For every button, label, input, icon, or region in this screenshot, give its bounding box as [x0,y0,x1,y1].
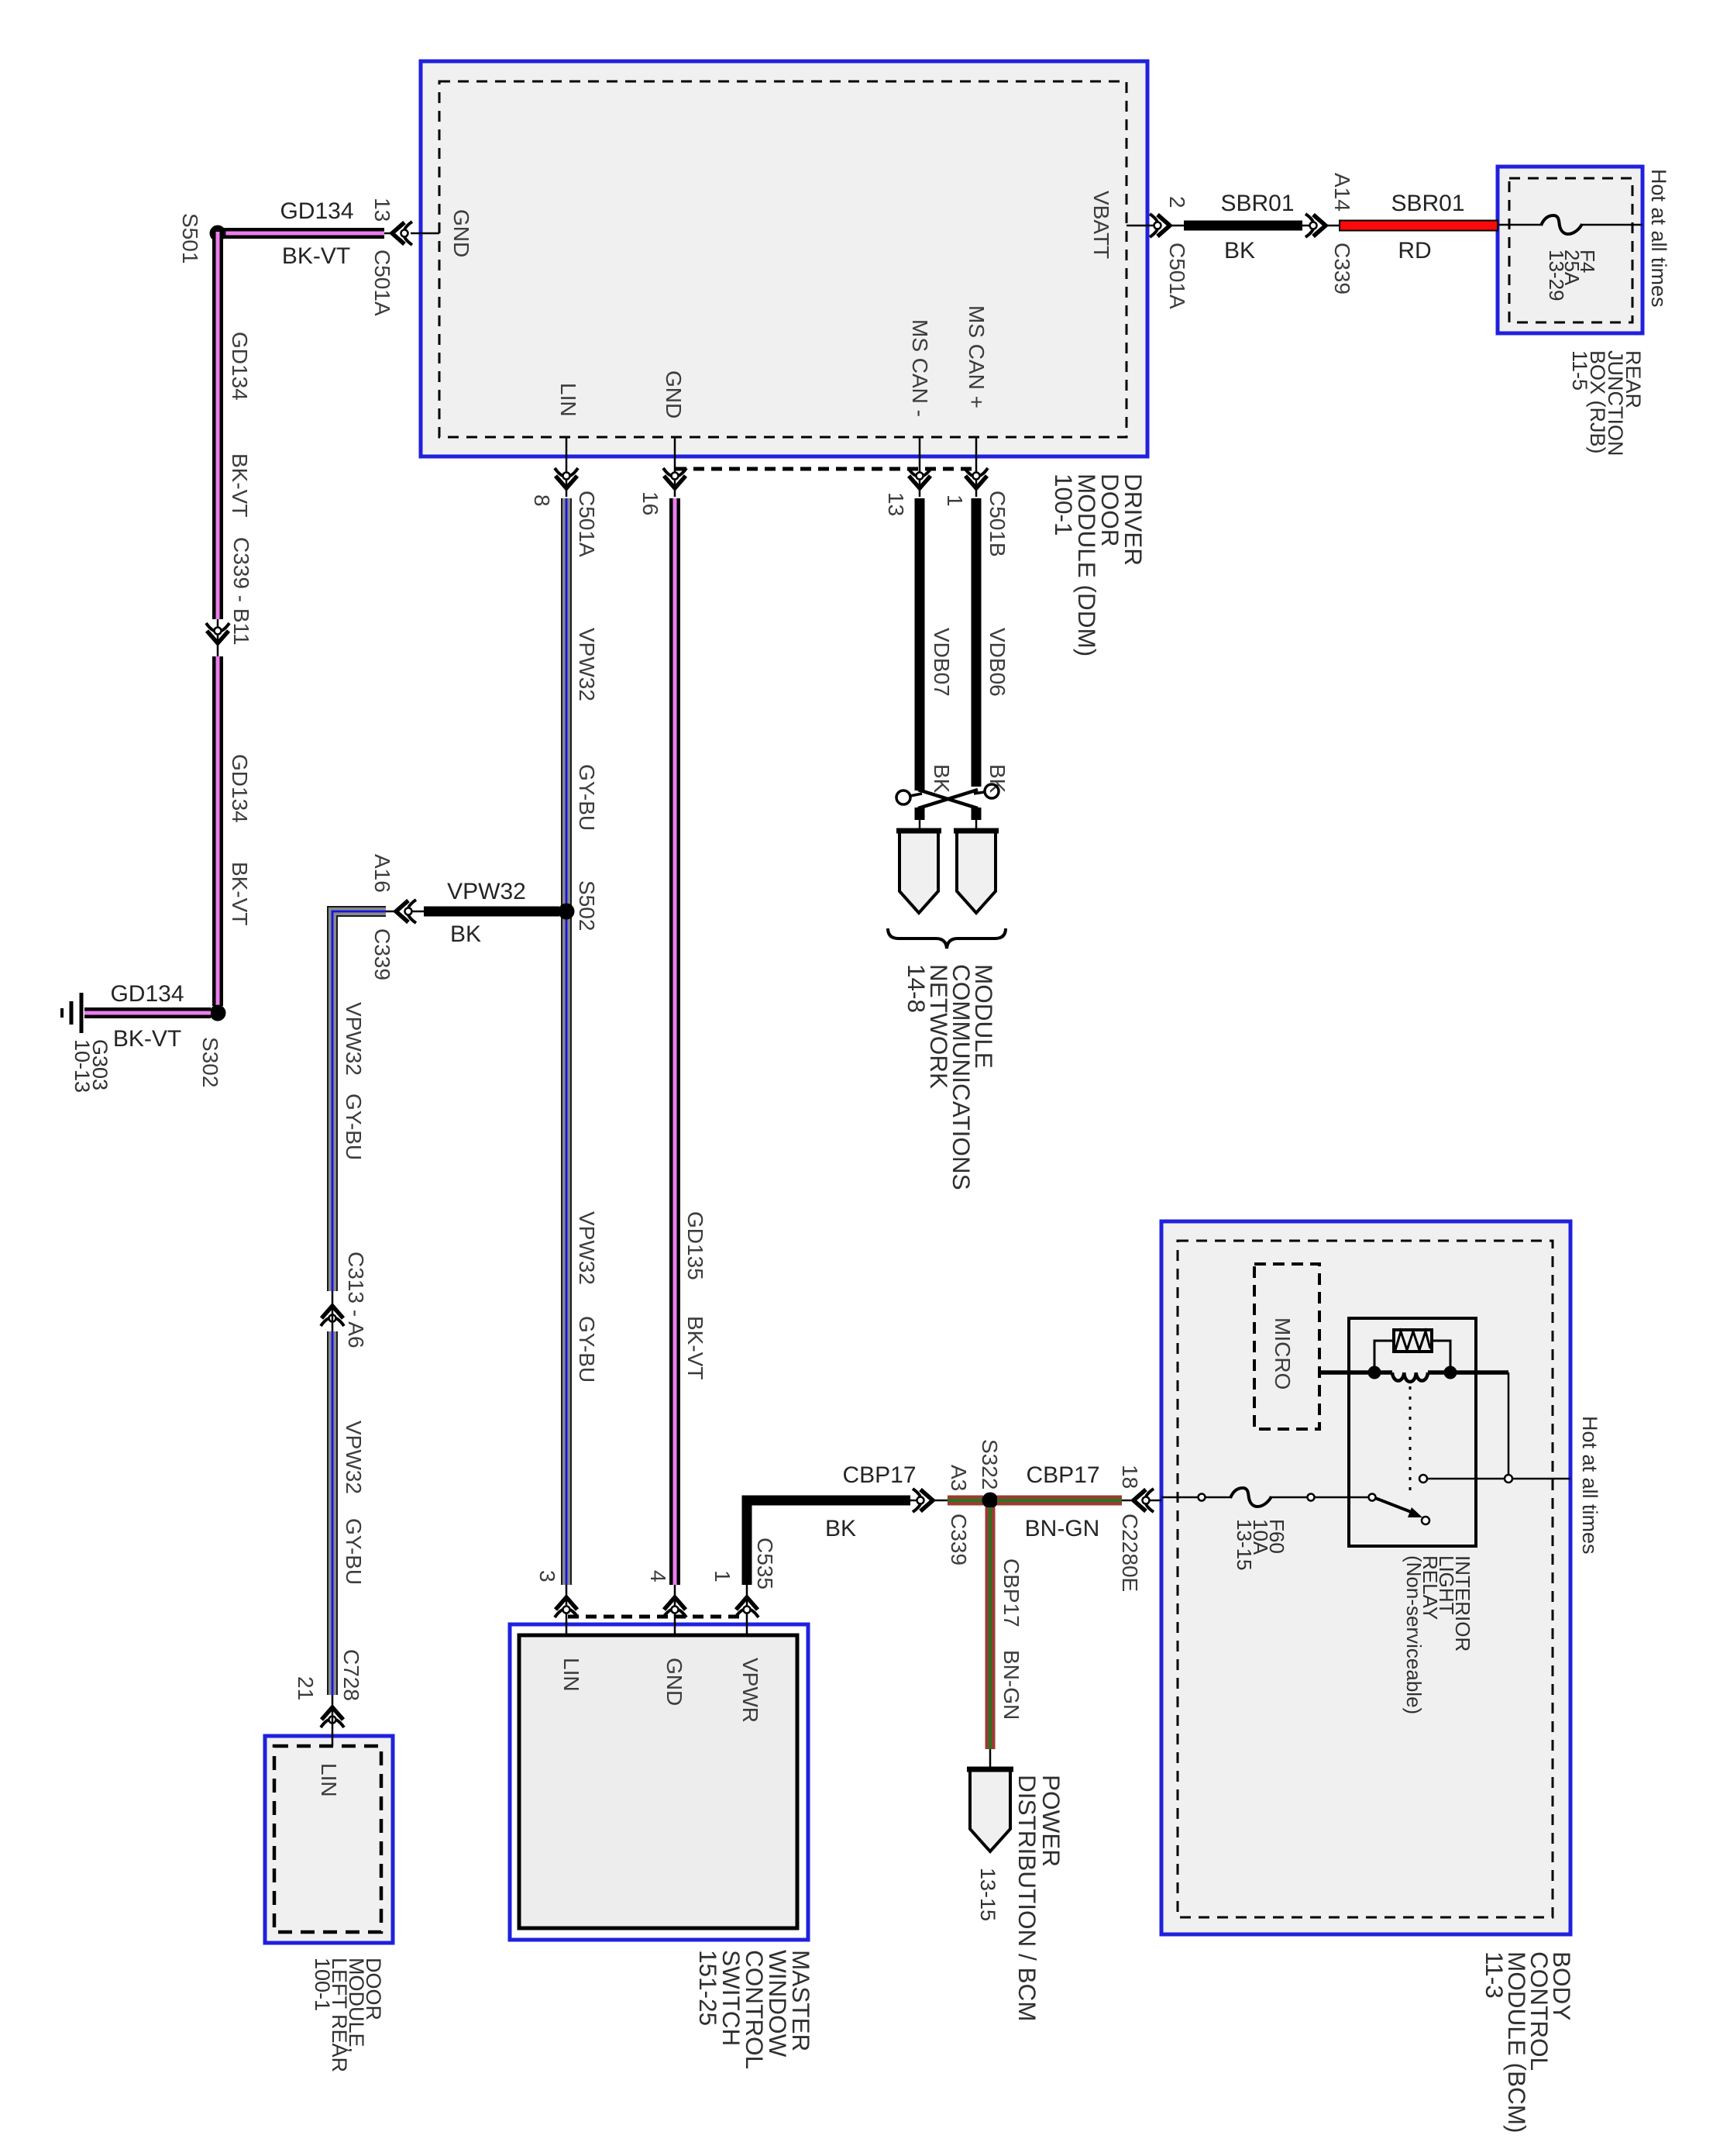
svg-text:S502: S502 [575,880,599,931]
svg-text:RD: RD [1398,238,1431,263]
svg-text:GD134: GD134 [280,198,353,224]
svg-text:BK: BK [930,764,954,794]
wire CBP17 BN-GN stub A3 to S322 [932,1496,983,1506]
module Door Module Left Rear box [265,1736,393,1943]
connector C501B dashed boundary under DDM [676,467,978,471]
switch pin3 stub [566,1585,568,1635]
svg-text:LIN: LIN [556,383,580,417]
off-page arrow (MS CAN -) [899,831,938,913]
connector C535 arrow (pin 4) [663,1597,686,1617]
resistor (relay suppression) [1374,1330,1450,1372]
wire relay NO feed vertical [1508,1372,1510,1475]
relay switch arm [1369,1494,1430,1525]
svg-text:C501A: C501A [370,250,394,316]
svg-text:LIN: LIN [559,1658,583,1692]
svg-text:GY-BU: GY-BU [342,1093,366,1160]
node S502 [559,904,575,920]
node S501 [210,226,226,242]
svg-text:A3: A3 [947,1465,971,1491]
wire GND pin stub (DDM left) [411,232,439,235]
svg-text:CBP17: CBP17 [999,1558,1023,1627]
svg-text:C2280E: C2280E [1118,1514,1142,1592]
wire CBP17 BN-GN S322 down [985,1507,996,1769]
connector C501A arrow (GND) [392,222,412,245]
svg-text:MS CAN -: MS CAN - [908,319,932,417]
svg-text:VPW32: VPW32 [575,628,599,701]
svg-text:C501B: C501B [985,491,1010,557]
wire SBR01 RD [1325,221,1498,231]
svg-text:CBP17: CBP17 [1026,1462,1099,1488]
svg-text:C728: C728 [339,1649,363,1701]
module BCM (Body Control Module) box [1161,1221,1570,1934]
svg-text:2: 2 [1165,196,1189,208]
connector C535 dashed boundary [568,1615,747,1619]
relay coil [1392,1372,1428,1382]
wire VBATT pin stub (DDM right) [1127,225,1160,227]
module Master Window Control Switch box [510,1624,808,1940]
node S302 [210,1005,226,1021]
svg-text:BK: BK [450,921,481,947]
svg-text:GY-BU: GY-BU [575,764,599,831]
svg-text:C501A: C501A [575,491,599,557]
wire GD134 BK-VT horizontal [222,228,393,239]
svg-text:C339: C339 [947,1514,971,1565]
twisted pair symbol [896,784,999,808]
pin 8 stub [566,437,568,497]
connector C501A arrow (VBATT) [1150,214,1170,237]
svg-text:3: 3 [535,1570,559,1583]
wire VPW32 GY-BU corner to door module [332,911,386,1291]
connector C535 arrow (pin 3) [555,1597,578,1617]
switch pin1 stub [746,1585,748,1635]
node S322 [982,1493,999,1509]
wire GD135 BK-VT pin16 to switch pin4 [669,498,680,1585]
wire GD134 BK-VT to ground [84,1007,211,1018]
svg-text:GD134: GD134 [228,754,252,823]
wire GD134 BK-VT vertical upper [212,228,223,656]
svg-text:A16: A16 [370,854,394,893]
svg-text:GD135: GD135 [683,1211,707,1280]
pin 1 stub [975,437,978,497]
connector C339 arrow (A14) [1305,214,1326,237]
svg-text:S302: S302 [198,1037,222,1087]
svg-text:C501A: C501A [1165,243,1189,309]
wire NO contact to hot feed [1427,1478,1505,1480]
svg-text:G30310-13: G30310-13 [71,1039,112,1093]
svg-text:C339: C339 [1330,243,1354,294]
micro U-MICRO dashed box inside BCM [1254,1264,1319,1429]
off-page arrow POWER DISTRIBUTION / BCM [970,1769,1010,1851]
svg-text:8: 8 [530,494,554,507]
module DDM (Driver Door Module) box [421,61,1147,456]
svg-text:Hot at all times: Hot at all times [1578,1416,1601,1555]
wire VPW32 BK from S502 to A16 [424,907,559,917]
wire VPW32 GY-BU lower segment [327,1331,338,1695]
svg-text:BN-GN: BN-GN [999,1650,1023,1720]
relay NO contact [1419,1475,1427,1483]
node hot junction [1505,1475,1512,1483]
svg-text:16: 16 [638,491,662,515]
switch pin4 stub [674,1585,676,1635]
connector C501B arrow (pin 1) [965,468,988,488]
svg-text:C339: C339 [370,928,394,980]
svg-text:18: 18 [1118,1465,1142,1489]
wire BCM fuse branch [1161,1496,1198,1499]
connector arrow (pin 16) [663,468,686,488]
brace [888,928,1006,949]
node coil-right [1444,1366,1457,1379]
module RJB (Rear Junction Box) [1498,167,1642,333]
wire VPW32 GY-BU pin8 to S502 to switch pin3 [561,498,572,1585]
svg-text:S501: S501 [178,213,202,263]
svg-text:Hot at all times: Hot at all times [1647,169,1670,308]
connector C339-B11 arrow [206,623,229,643]
svg-text:GD134: GD134 [110,981,184,1007]
connector arrow (pin 13) [908,468,931,488]
svg-text:4: 4 [646,1570,670,1583]
svg-text:GND: GND [449,209,473,257]
wire CBP17 BN-GN S322 to BCM [997,1496,1161,1506]
svg-text:VBATT: VBATT [1089,191,1113,259]
svg-text:BK: BK [1224,238,1255,263]
svg-text:C535: C535 [753,1538,777,1589]
wire VDB07 BK (MS CAN -) [915,498,925,790]
connector C339 arrow (A16) [396,900,416,923]
svg-text:GY-BU: GY-BU [342,1518,366,1585]
connector C2280E arrow (18) [1133,1489,1154,1512]
relay K1 interior light relay box [1349,1318,1476,1546]
off-page arrow (MS CAN +) [957,831,996,913]
svg-text:13: 13 [370,198,394,222]
svg-text:BK-VT: BK-VT [228,453,252,517]
svg-text:LIN: LIN [317,1763,341,1797]
svg-text:VPWR: VPWR [738,1658,762,1723]
svg-text:1: 1 [943,494,967,507]
svg-text:21: 21 [294,1676,318,1700]
svg-text:BK: BK [825,1516,856,1541]
svg-text:BK-VT: BK-VT [683,1316,707,1379]
svg-text:BK-VT: BK-VT [113,1026,181,1052]
svg-text:SBR01: SBR01 [1220,191,1294,216]
svg-text:A14: A14 [1330,173,1354,212]
svg-text:BK-VT: BK-VT [282,243,350,269]
svg-text:C339 - B11: C339 - B11 [229,537,253,646]
wire SBR01 BK [1169,225,1184,227]
svg-text:VPW32: VPW32 [342,1002,366,1076]
ground G303 [62,993,81,1033]
node coil-left [1368,1366,1381,1379]
wire micro-to-relay coil feed [1319,1370,1392,1375]
svg-text:MICRO: MICRO [1271,1317,1295,1390]
wire hot at all times [1512,1478,1570,1480]
pin 13 stub [919,437,921,497]
connector C535 arrow (pin 1) [735,1597,758,1617]
fuse F60 10A 13-15 [1230,1488,1271,1507]
pin 16 stub [674,437,676,497]
svg-text:CBP17: CBP17 [842,1462,916,1488]
svg-text:GD134: GD134 [228,332,252,401]
svg-text:GND: GND [662,1658,686,1706]
svg-text:C313 - A6: C313 - A6 [344,1252,368,1348]
svg-text:GND: GND [662,370,686,418]
svg-text:13-15: 13-15 [976,1868,999,1921]
svg-text:SBR01: SBR01 [1391,191,1464,216]
connector C339 arrow (A3) [913,1489,933,1512]
svg-text:S322: S322 [978,1439,1002,1490]
svg-text:BK-VT: BK-VT [228,862,252,925]
svg-text:VPW32: VPW32 [575,1211,599,1285]
connector C313-A6 arrow [321,1306,344,1326]
svg-text:GY-BU: GY-BU [575,1316,599,1383]
svg-text:MS CAN +: MS CAN + [965,305,989,408]
wire CBP17 BK from switch pin1 [747,1500,922,1585]
svg-text:VDB06: VDB06 [985,628,1010,697]
wire VDB06 BK (MS CAN +) [972,498,982,787]
wire GD134 BK-VT vertical lower [212,656,223,1006]
connector C501A arrow (pin 8) [555,468,578,488]
svg-text:VPW32: VPW32 [342,1421,366,1494]
svg-text:VDB07: VDB07 [930,628,954,697]
connector C728 arrow [321,1707,344,1727]
fuse F4 25A 13-29 [1541,215,1582,234]
svg-text:VPW32: VPW32 [447,879,526,904]
svg-text:13: 13 [884,492,908,516]
svg-text:BN-GN: BN-GN [1025,1516,1100,1541]
mechanical link (dotted) [1409,1386,1412,1493]
svg-text:1: 1 [710,1570,734,1583]
fuse F4 wire inside RJB [1498,224,1541,226]
